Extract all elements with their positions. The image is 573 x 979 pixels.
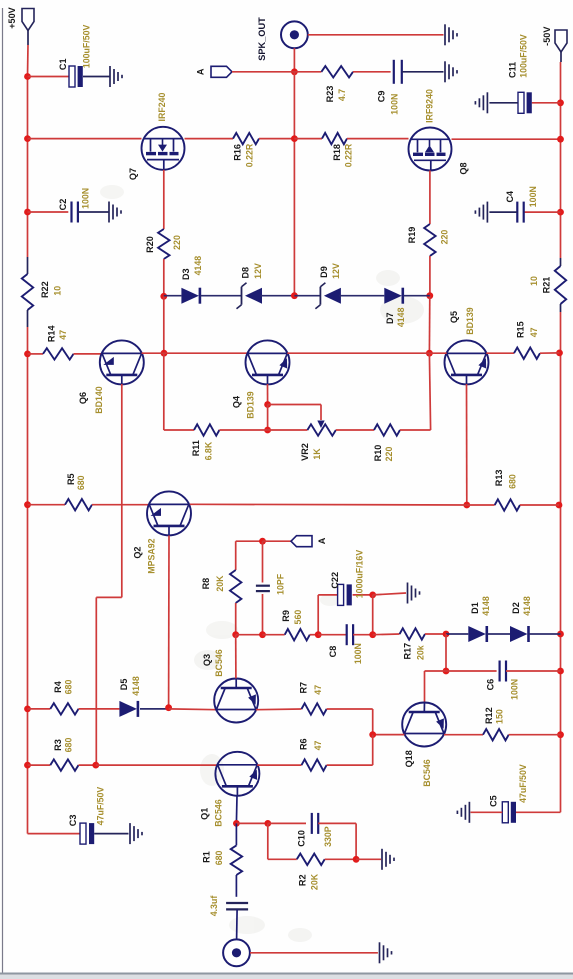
wire C22 right down bbox=[372, 595, 374, 635]
ground C11 bbox=[486, 92, 488, 113]
transistor Q18 BC546 bbox=[402, 703, 446, 747]
svg-text:10: 10 bbox=[53, 286, 63, 296]
svg-text:680: 680 bbox=[64, 680, 74, 695]
svg-text:SPK_OUT: SPK_OUT bbox=[257, 17, 267, 61]
node rail C11 bbox=[557, 99, 564, 106]
node R3 Q6 junction bbox=[92, 762, 99, 769]
resistor R1 bbox=[235, 823, 237, 845]
svg-text:680: 680 bbox=[64, 738, 74, 753]
node rail R5 bbox=[24, 501, 31, 508]
wire rail to Q7 bbox=[28, 138, 142, 140]
node rail Q7 row bbox=[24, 135, 31, 142]
resistor R13 bbox=[467, 504, 495, 506]
svg-text:100N: 100N bbox=[528, 186, 538, 207]
transistor Q6 BD140 bbox=[100, 340, 144, 384]
svg-text:D8: D8 bbox=[241, 267, 251, 279]
node rail R13 bbox=[556, 502, 563, 509]
svg-text:R1: R1 bbox=[202, 851, 212, 863]
svg-text:D7: D7 bbox=[385, 312, 395, 324]
svg-text:4148: 4148 bbox=[131, 676, 141, 696]
svg-text:Q1: Q1 bbox=[200, 808, 210, 820]
svg-text:R19: R19 bbox=[407, 227, 417, 244]
resistor R17 bbox=[373, 633, 400, 636]
resistor R11 bbox=[194, 424, 219, 435]
svg-text:R18: R18 bbox=[332, 144, 342, 161]
node rail C4 bbox=[557, 209, 564, 216]
svg-text:220: 220 bbox=[440, 230, 450, 245]
resistor R9 bbox=[263, 634, 285, 636]
svg-text:R6: R6 bbox=[299, 738, 309, 750]
node VR2 row bbox=[264, 427, 271, 434]
svg-text:47: 47 bbox=[313, 685, 323, 695]
wire bias column right bbox=[428, 296, 430, 354]
ground C5 bbox=[468, 802, 470, 823]
resistor R12 bbox=[444, 734, 483, 736]
svg-text:Q7: Q7 bbox=[128, 168, 138, 180]
svg-text:MPSA92: MPSA92 bbox=[146, 538, 156, 573]
wire right -50V rail lower bbox=[560, 312, 562, 812]
resistor R2 bbox=[268, 858, 297, 860]
svg-text:Q2: Q2 bbox=[133, 547, 143, 559]
svg-text:D5: D5 bbox=[119, 679, 129, 691]
svg-text:R23: R23 bbox=[325, 86, 335, 103]
svg-text:Q18: Q18 bbox=[404, 750, 414, 767]
svg-text:R2: R2 bbox=[298, 874, 308, 886]
wire R2 branch down bbox=[267, 823, 269, 859]
svg-text:R21: R21 bbox=[542, 277, 552, 294]
resistor R8 bbox=[235, 541, 237, 570]
svg-text:100N: 100N bbox=[353, 643, 363, 664]
svg-text:C6: C6 bbox=[486, 679, 496, 691]
svg-text:1K: 1K bbox=[312, 448, 322, 460]
capacitor C2 bbox=[28, 211, 69, 213]
wire Q8 gate bbox=[429, 171, 431, 225]
svg-text:Q8: Q8 bbox=[459, 162, 469, 174]
capacitor C22 1000uF/16V bbox=[338, 584, 344, 605]
scan artifacts bbox=[100, 185, 424, 942]
ground input bbox=[379, 942, 381, 963]
svg-text:100N: 100N bbox=[390, 94, 400, 115]
wire output node vertical bbox=[293, 48, 295, 72]
node R9 right bbox=[315, 631, 322, 638]
transistor Q4 BD139 bbox=[246, 340, 290, 384]
svg-text:C10: C10 bbox=[296, 830, 306, 847]
ground R2 bbox=[381, 849, 383, 870]
ground C1 bbox=[109, 66, 111, 87]
svg-text:12V: 12V bbox=[253, 263, 263, 279]
diode D5 4148 bbox=[119, 701, 136, 717]
resistor R23 bbox=[294, 71, 321, 73]
svg-text:R4: R4 bbox=[53, 680, 63, 693]
power flag -50V bbox=[555, 30, 567, 52]
svg-text:680: 680 bbox=[508, 474, 518, 489]
wire Q1 base bbox=[236, 786, 238, 796]
wire R6 to Q18 node bbox=[372, 735, 374, 766]
node rail Q8 row bbox=[557, 136, 564, 143]
svg-text:C5: C5 bbox=[489, 795, 499, 807]
node 10PF top bbox=[259, 538, 266, 545]
svg-text:100uF/50V: 100uF/50V bbox=[519, 34, 529, 78]
transistor Q7 IRF240 bbox=[142, 127, 185, 170]
wire Q4 collector bbox=[267, 375, 269, 384]
wire Q18 base bbox=[424, 671, 426, 702]
wire Q3 base lead bbox=[235, 678, 237, 688]
svg-text:0.22R: 0.22R bbox=[344, 143, 354, 167]
svg-text:A: A bbox=[317, 537, 327, 544]
capacitor C11 bbox=[532, 102, 561, 104]
wire Q3 base row bbox=[236, 634, 263, 636]
transistor Q1 BC546 bbox=[215, 752, 259, 796]
resistor R22 bbox=[27, 257, 29, 274]
wire bias column to R11 bbox=[163, 353, 165, 430]
node rail R12 bbox=[557, 731, 564, 738]
wire Q7 gate bbox=[163, 170, 165, 229]
svg-text:4148: 4148 bbox=[522, 596, 532, 616]
node C6 left bbox=[443, 668, 450, 675]
svg-text:C3: C3 bbox=[68, 815, 78, 827]
svg-text:100N: 100N bbox=[510, 679, 520, 700]
wire Q2 to Q5 emitter node bbox=[190, 503, 467, 506]
svg-text:560: 560 bbox=[293, 610, 303, 625]
node rail R4 bbox=[24, 706, 31, 713]
wire rail to C5 bbox=[516, 811, 561, 813]
svg-text:6.8K: 6.8K bbox=[204, 441, 214, 460]
resistor R21 bbox=[560, 258, 562, 266]
svg-text:680: 680 bbox=[214, 850, 224, 865]
svg-text:100N: 100N bbox=[81, 188, 91, 209]
resistor R6 bbox=[257, 764, 301, 766]
connector SPK_OUT bbox=[281, 21, 308, 48]
resistor R18 bbox=[294, 138, 322, 140]
node D7 cathode bbox=[426, 292, 433, 299]
svg-text:A: A bbox=[195, 68, 205, 75]
node rail D2 bbox=[557, 631, 564, 638]
wire R17 node down bbox=[445, 634, 447, 671]
svg-text:C11: C11 bbox=[507, 62, 517, 78]
svg-text:Q5: Q5 bbox=[449, 311, 459, 323]
node rail R14 bbox=[24, 351, 31, 358]
node Q4 collector bbox=[264, 401, 271, 408]
transistor Q5 BD139 bbox=[445, 340, 489, 384]
zener diode D9 12V bbox=[294, 295, 320, 297]
svg-text:R10: R10 bbox=[373, 445, 383, 462]
node output tap bbox=[291, 68, 298, 75]
svg-text:1000uF/16V: 1000uF/16V bbox=[354, 550, 364, 599]
capacitor C8 bbox=[318, 634, 347, 636]
node R2 C10 junction bbox=[353, 856, 360, 863]
resistor R5 bbox=[28, 504, 66, 506]
svg-text:10PF: 10PF bbox=[276, 573, 286, 595]
node rail C2 bbox=[24, 209, 31, 216]
wire left rail lower bbox=[27, 327, 29, 834]
wire C10 row bbox=[236, 822, 267, 824]
svg-text:IRF9240: IRF9240 bbox=[425, 89, 435, 123]
svg-text:BD139: BD139 bbox=[246, 391, 256, 418]
capacitor C1 bbox=[28, 76, 70, 78]
wire D5 to Q3 bbox=[169, 708, 217, 711]
svg-text:47: 47 bbox=[529, 327, 539, 337]
node rail R3 bbox=[24, 762, 31, 769]
wire C22 branch bbox=[317, 595, 319, 635]
svg-text:R22: R22 bbox=[40, 281, 50, 298]
svg-text:BC546: BC546 bbox=[214, 799, 224, 826]
node R17 right bbox=[443, 631, 450, 638]
power flag +50V bbox=[22, 9, 34, 31]
svg-text:4.3uf: 4.3uf bbox=[209, 896, 219, 917]
svg-text:20K: 20K bbox=[310, 873, 320, 890]
wire to ground R2 bbox=[356, 858, 381, 860]
resistor R16 bbox=[185, 138, 234, 140]
svg-text:R12: R12 bbox=[484, 707, 494, 724]
svg-text:10: 10 bbox=[529, 276, 539, 286]
wire left +50V rail upper bbox=[27, 77, 29, 258]
svg-text:4148: 4148 bbox=[396, 307, 406, 327]
wire output rail vertical bbox=[293, 72, 295, 296]
node C8 right bbox=[369, 631, 376, 638]
wire C6 row left bbox=[425, 670, 447, 672]
svg-text:4148: 4148 bbox=[481, 596, 491, 616]
wire rail to C3 bbox=[28, 833, 81, 835]
diode D7 4148 bbox=[384, 288, 402, 304]
node bias center bbox=[291, 292, 298, 299]
svg-text:-50V: -50V bbox=[542, 27, 552, 46]
svg-text:D2: D2 bbox=[511, 602, 521, 614]
svg-text:BD140: BD140 bbox=[94, 386, 104, 413]
wire +50V stem bbox=[27, 31, 29, 46]
svg-text:C1: C1 bbox=[58, 58, 68, 70]
svg-text:C2: C2 bbox=[58, 199, 68, 211]
potentiometer VR2 1K bbox=[268, 429, 308, 431]
transistor Q3 BC546 bbox=[214, 679, 258, 723]
wire C22 to ground bbox=[373, 593, 406, 595]
transistor Q8 IRF9240 bbox=[409, 128, 452, 171]
wire Q5 node link bbox=[429, 352, 446, 354]
node rail C6 bbox=[557, 668, 564, 675]
wire Q4 to Q5 node bbox=[287, 352, 429, 354]
ground C22 bbox=[407, 583, 409, 604]
svg-text:C22: C22 bbox=[330, 572, 340, 589]
wire R7 to Q18 node bbox=[372, 709, 374, 735]
svg-text:220: 220 bbox=[172, 235, 182, 250]
svg-text:47: 47 bbox=[58, 330, 68, 340]
svg-text:Q4: Q4 bbox=[232, 395, 242, 408]
wire Q6 to Q4 bbox=[142, 352, 248, 354]
svg-text:BC546: BC546 bbox=[422, 759, 432, 786]
capacitor C6 bbox=[446, 670, 497, 672]
svg-text:R8: R8 bbox=[201, 578, 211, 590]
wire R10 up to driver node bbox=[429, 353, 430, 430]
transistor Q2 MPSA92 bbox=[147, 491, 191, 535]
resistor R4 bbox=[28, 708, 51, 710]
svg-text:47: 47 bbox=[313, 741, 323, 751]
capacitor C10 330P bbox=[311, 813, 313, 834]
svg-text:R14: R14 bbox=[46, 325, 56, 343]
capacitor C9 bbox=[393, 60, 395, 84]
node C22 right bbox=[369, 592, 376, 599]
capacitor input 4.3uf bbox=[226, 902, 248, 904]
svg-text:330P: 330P bbox=[323, 826, 333, 847]
wire input to ground bbox=[250, 952, 378, 954]
wire Q2 base bbox=[168, 526, 170, 535]
wire -50V stem bbox=[560, 52, 562, 62]
wire R3 row to Q1 bbox=[96, 764, 218, 766]
wire A to output bbox=[232, 71, 294, 73]
node rail R15 bbox=[556, 350, 563, 357]
node Q18 input bbox=[369, 731, 376, 738]
svg-text:150: 150 bbox=[495, 709, 505, 724]
capacitor C4 bbox=[524, 211, 561, 213]
ground C2 bbox=[108, 202, 110, 223]
svg-text:Q6: Q6 bbox=[78, 392, 88, 404]
zener diode D8 12V bbox=[241, 287, 243, 305]
ground C3 bbox=[129, 823, 131, 844]
svg-text:47uF/50V: 47uF/50V bbox=[518, 764, 528, 803]
resistor R7 bbox=[256, 708, 302, 711]
net flag A top bbox=[211, 66, 232, 77]
svg-text:680: 680 bbox=[76, 475, 86, 490]
svg-text:D9: D9 bbox=[319, 266, 329, 278]
svg-text:100uF/50V: 100uF/50V bbox=[82, 25, 92, 69]
svg-text:+50V: +50V bbox=[7, 7, 17, 29]
wire right -50V rail upper bbox=[560, 103, 562, 258]
svg-text:R9: R9 bbox=[281, 610, 291, 622]
resistor R19 bbox=[424, 224, 435, 256]
wire Q4 collector to row bbox=[267, 405, 269, 431]
svg-text:12V: 12V bbox=[331, 263, 341, 279]
svg-text:R17: R17 bbox=[403, 643, 413, 660]
svg-text:220: 220 bbox=[384, 447, 394, 462]
svg-text:47uF/50V: 47uF/50V bbox=[96, 787, 106, 826]
node rail C1 bbox=[24, 73, 31, 80]
ground SPK_OUT bbox=[444, 24, 446, 45]
capacitor C3 47uF/50V bbox=[80, 823, 86, 844]
svg-text:20K: 20K bbox=[215, 575, 225, 592]
resistor R14 bbox=[28, 353, 44, 355]
resistor R15 bbox=[486, 352, 514, 354]
node driver row right bbox=[426, 350, 433, 357]
resistor R20 bbox=[158, 229, 169, 259]
svg-text:R5: R5 bbox=[66, 473, 76, 485]
node C10 left bbox=[264, 820, 271, 827]
connector input jack bbox=[223, 939, 250, 966]
net flag A lower bbox=[263, 540, 292, 542]
page border bbox=[2, 8, 4, 973]
wire VR2 wiper link bbox=[268, 404, 321, 406]
wire Q6 collector bbox=[121, 375, 123, 384]
ground C9 bbox=[444, 61, 446, 82]
node D3 anode bbox=[160, 293, 167, 300]
svg-text:R20: R20 bbox=[145, 236, 155, 253]
resistor R10 bbox=[336, 429, 374, 431]
wire Q3 collector top bbox=[236, 540, 263, 542]
diode D2 4148 bbox=[510, 626, 528, 642]
svg-text:4.7: 4.7 bbox=[337, 89, 347, 101]
svg-text:R7: R7 bbox=[299, 682, 309, 694]
wire Q5 emitter bbox=[466, 375, 468, 384]
svg-text:D3: D3 bbox=[181, 268, 191, 280]
ground C4 bbox=[486, 202, 488, 223]
svg-text:R11: R11 bbox=[191, 440, 201, 456]
svg-text:20k: 20k bbox=[415, 645, 425, 660]
svg-text:R16: R16 bbox=[233, 144, 243, 161]
svg-text:R3: R3 bbox=[53, 739, 63, 751]
wire SPK_OUT to ground bbox=[308, 34, 444, 36]
node Q3 base bbox=[232, 631, 239, 638]
diode D3 4148 bbox=[164, 295, 182, 297]
wire Q18 emitter row bbox=[373, 734, 405, 736]
svg-text:C4: C4 bbox=[505, 190, 515, 203]
svg-text:BD139: BD139 bbox=[465, 307, 475, 334]
diode D1 4148 bbox=[446, 633, 468, 635]
svg-text:C9: C9 bbox=[377, 91, 387, 103]
svg-text:D1: D1 bbox=[470, 602, 480, 614]
resistor R3 bbox=[28, 764, 51, 766]
node R13 left bbox=[463, 502, 470, 509]
svg-text:4148: 4148 bbox=[193, 256, 203, 276]
svg-text:C8: C8 bbox=[328, 646, 338, 658]
wire Q8 to right rail bbox=[452, 138, 561, 140]
svg-text:0.22R: 0.22R bbox=[245, 143, 255, 167]
capacitor C5 47uF/50V bbox=[502, 802, 508, 823]
wire bias column left bbox=[163, 296, 165, 353]
node driver row left bbox=[161, 350, 168, 357]
capacitor 10PF bbox=[262, 541, 264, 582]
node 10PF bottom bbox=[259, 631, 266, 638]
node Q1 base bbox=[233, 820, 240, 827]
svg-text:VR2: VR2 bbox=[300, 443, 310, 461]
svg-text:IRF240: IRF240 bbox=[157, 92, 167, 121]
svg-text:BC546: BC546 bbox=[214, 649, 224, 676]
svg-text:R15: R15 bbox=[515, 321, 525, 338]
node Q2 base D5 bbox=[165, 704, 172, 711]
svg-text:Q3: Q3 bbox=[202, 654, 212, 666]
wire C10 right down bbox=[355, 823, 357, 859]
svg-text:R13: R13 bbox=[494, 470, 504, 487]
node R16 R18 junction bbox=[291, 135, 298, 142]
